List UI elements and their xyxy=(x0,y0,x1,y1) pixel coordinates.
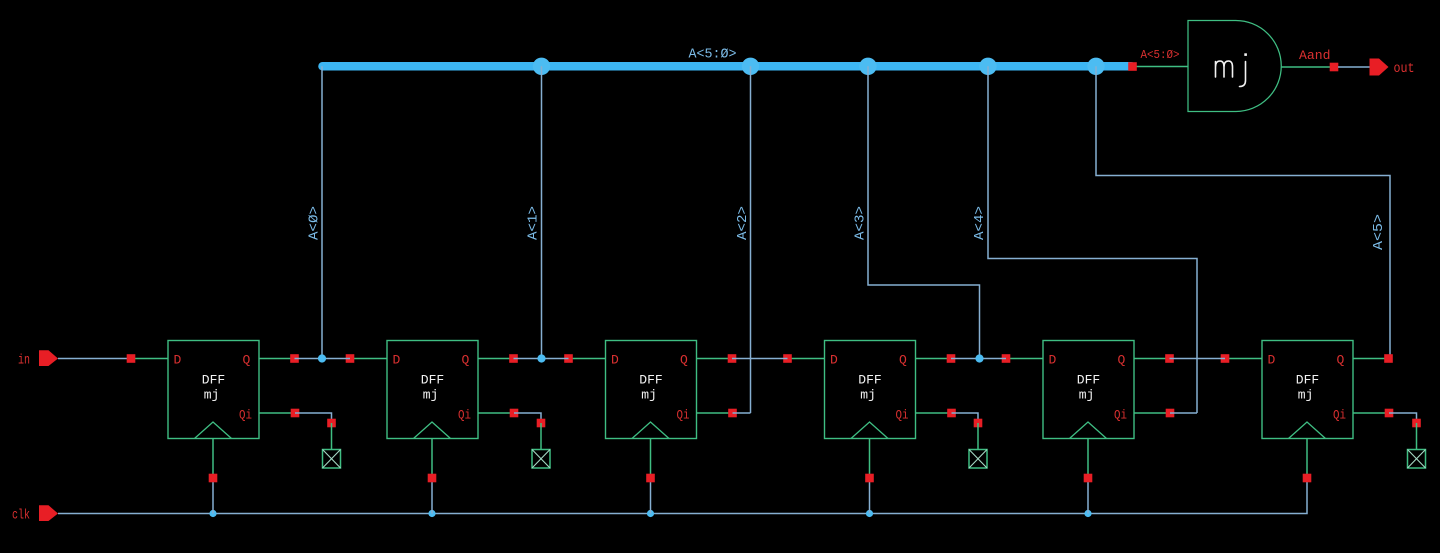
wire clk stub X4 xyxy=(869,478,871,514)
svg-text:Q: Q xyxy=(680,353,688,368)
DFF X6 xyxy=(1262,341,1353,439)
svg-text:DFF: DFF xyxy=(202,373,225,388)
wire net A<0> xyxy=(321,66,323,358)
wire Q0 to D1 xyxy=(295,358,351,360)
svg-text:A<1>: A<1> xyxy=(526,206,542,240)
DFF X1 xyxy=(168,341,259,439)
pin marker Q X3 xyxy=(728,354,737,363)
wire D stub X6 xyxy=(1225,358,1262,360)
svg-text:A<5>: A<5> xyxy=(1371,214,1387,250)
pin clk xyxy=(39,505,58,521)
svg-text:mj: mj xyxy=(641,388,657,403)
pin marker D X1 xyxy=(127,354,136,363)
pin marker clk X4 xyxy=(865,474,874,483)
svg-text:D: D xyxy=(830,353,838,368)
pin marker Q X6 xyxy=(1384,354,1393,363)
svg-text:A<Ø>: A<Ø> xyxy=(307,206,323,240)
bus junction A<3> tap xyxy=(859,58,876,75)
and-gate U1 xyxy=(1188,20,1281,111)
bus junction A<5> tap xyxy=(1087,58,1104,75)
wire clk green stub X2 xyxy=(431,439,433,479)
svg-text:in: in xyxy=(18,353,30,369)
svg-text:out: out xyxy=(1394,61,1415,77)
wire Aand to out pin xyxy=(1338,66,1370,68)
svg-text:Q: Q xyxy=(1337,353,1345,368)
bus junction A<2> tap xyxy=(742,58,759,75)
pin marker Qi X2 xyxy=(510,409,519,418)
junction Q0 net xyxy=(318,354,326,362)
pin marker Qi X3 xyxy=(728,409,737,418)
wire D stub X5 xyxy=(1006,358,1043,360)
wire clk green stub X3 xyxy=(650,439,652,479)
svg-text:mj: mj xyxy=(423,388,439,403)
wire Qi X5 to A<4> xyxy=(1170,412,1197,414)
wire Q stub X6 xyxy=(1353,358,1389,360)
wire Qi X3 to A<2> xyxy=(733,412,751,414)
wire clk stub X5 xyxy=(1087,478,1089,514)
pin marker D X2 xyxy=(346,354,355,363)
wire net A<3> xyxy=(868,66,980,358)
pin marker D X3 xyxy=(564,354,573,363)
pin marker D X6 xyxy=(1221,354,1230,363)
wire clk green stub X5 xyxy=(1087,439,1089,479)
svg-text:D: D xyxy=(1049,353,1057,368)
svg-text:A<3>: A<3> xyxy=(853,206,869,240)
bus junction A<4> tap xyxy=(979,58,996,75)
junction clk X2 xyxy=(428,510,435,517)
DFF X4 xyxy=(825,341,916,439)
svg-text:D: D xyxy=(393,353,401,368)
pin marker clk X5 xyxy=(1084,474,1093,483)
svg-text:mj: mj xyxy=(860,388,876,403)
DFF X5 xyxy=(1043,341,1134,439)
wire in net xyxy=(58,358,131,360)
pin out xyxy=(1370,59,1389,76)
wire Qi to noconn X2 xyxy=(514,413,541,423)
pin marker D X4 xyxy=(783,354,792,363)
wire Q3 to D4 xyxy=(951,358,1006,360)
wire D stub X3 xyxy=(569,358,606,360)
wire Qi stub X2 xyxy=(478,412,514,414)
bus junction A<1> tap xyxy=(533,58,550,75)
wire Q stub X5 xyxy=(1134,358,1170,360)
svg-text:DFF: DFF xyxy=(858,373,881,388)
pin marker noconn X1 xyxy=(327,419,336,428)
wire Q stub X1 xyxy=(259,358,295,360)
pin marker Q X1 xyxy=(290,354,299,363)
pin marker clk X3 xyxy=(646,474,655,483)
svg-text:D: D xyxy=(1268,353,1276,368)
wire clk trunk xyxy=(58,478,1307,514)
svg-text:Qi: Qi xyxy=(677,408,690,423)
svg-text:DFF: DFF xyxy=(1077,373,1100,388)
wire net A<1> xyxy=(541,66,543,358)
wire Q4 to D5 xyxy=(1170,358,1226,360)
svg-text:D: D xyxy=(611,353,619,368)
pin marker Q X2 xyxy=(509,354,518,363)
wire net A<5> xyxy=(1096,66,1390,358)
pin marker Qi X6 xyxy=(1385,409,1394,418)
wire Qi to noconn X6 xyxy=(1389,413,1417,423)
svg-text:Q: Q xyxy=(243,353,251,368)
wire Q stub X4 xyxy=(916,358,952,360)
svg-text:A<5:Ø>: A<5:Ø> xyxy=(1141,48,1180,62)
svg-text:Q: Q xyxy=(462,353,470,368)
svg-text:Qi: Qi xyxy=(1114,408,1127,423)
wire clk stub X2 xyxy=(431,478,433,514)
pin marker noconn X4 xyxy=(974,419,983,428)
wire net A<2> xyxy=(750,66,752,413)
junction Q1 net xyxy=(537,354,545,362)
pin marker clk X1 xyxy=(209,474,218,483)
pin marker Q X4 xyxy=(947,354,956,363)
wire noconn stub X6 xyxy=(1416,423,1418,450)
svg-text:Qi: Qi xyxy=(1333,408,1346,423)
pin marker Qi X1 xyxy=(291,409,300,418)
svg-text:A<2>: A<2> xyxy=(735,206,751,240)
pin marker Qi X5 xyxy=(1166,409,1175,418)
wire clk stub X1 xyxy=(212,478,214,514)
no-connect symbol X6 xyxy=(1408,450,1426,469)
svg-text:Qi: Qi xyxy=(458,408,471,423)
wire noconn stub X2 xyxy=(540,423,542,450)
wire gate output Aand xyxy=(1281,66,1334,68)
DFF X3 xyxy=(606,341,697,439)
junction clk X4 xyxy=(866,510,873,517)
bus A<5:0> xyxy=(323,62,1132,71)
svg-text:Qi: Qi xyxy=(896,408,909,423)
svg-text:Qi: Qi xyxy=(239,408,252,423)
svg-text:Aand: Aand xyxy=(1299,48,1331,63)
wire noconn stub X1 xyxy=(331,423,333,450)
wire D stub X4 xyxy=(788,358,825,360)
pin marker D X5 xyxy=(1002,354,1011,363)
DFF X2 xyxy=(387,341,478,439)
no-connect symbol X2 xyxy=(532,450,550,469)
svg-text:D: D xyxy=(174,353,182,368)
wire noconn stub X4 xyxy=(977,423,979,450)
pin marker gate input xyxy=(1128,62,1137,71)
wire D stub X2 xyxy=(350,358,387,360)
pin marker clk X6 xyxy=(1303,474,1312,483)
svg-text:DFF: DFF xyxy=(1296,373,1319,388)
pin marker noconn X6 xyxy=(1412,419,1421,428)
wire clk stub X3 xyxy=(650,478,652,514)
junction Q3 net xyxy=(975,354,983,362)
svg-text:Q: Q xyxy=(1118,353,1126,368)
wire Q stub X2 xyxy=(478,358,514,360)
pin marker clk X2 xyxy=(428,474,437,483)
wire Qi stub X5 xyxy=(1134,412,1170,414)
pin marker gate output xyxy=(1330,63,1339,72)
pin in xyxy=(39,350,58,366)
wire Qi stub X6 xyxy=(1353,412,1389,414)
svg-text:DFF: DFF xyxy=(639,373,662,388)
wire clk green stub X1 xyxy=(212,439,214,479)
junction clk X5 xyxy=(1084,510,1091,517)
no-connect symbol X4 xyxy=(969,450,987,469)
wire Q1 to D2 xyxy=(514,358,569,360)
wire Qi to noconn X1 xyxy=(295,413,332,423)
wire Qi stub X3 xyxy=(697,412,733,414)
svg-text:DFF: DFF xyxy=(421,373,444,388)
svg-text:A<5:Ø>: A<5:Ø> xyxy=(689,48,737,63)
pin marker Q X5 xyxy=(1165,354,1174,363)
svg-text:Q: Q xyxy=(899,353,907,368)
no-connect symbol X1 xyxy=(323,450,341,469)
junction clk X1 xyxy=(209,510,216,517)
pin marker noconn X2 xyxy=(537,419,546,428)
junction clk X3 xyxy=(647,510,654,517)
svg-text:mj: mj xyxy=(204,388,220,403)
wire Qi stub X1 xyxy=(259,412,295,414)
wire Q stub X3 xyxy=(697,358,733,360)
wire Q2 to D3 xyxy=(732,358,788,360)
wire clk green stub X4 xyxy=(869,439,871,479)
wire Qi stub X4 xyxy=(916,412,952,414)
wire D stub X1 xyxy=(131,358,168,360)
wire clk green stub X6 xyxy=(1306,439,1308,479)
svg-text:clk: clk xyxy=(12,508,30,524)
wire bus to gate input xyxy=(1136,66,1188,68)
svg-text:mj: mj xyxy=(1079,388,1095,403)
wire net A<4> xyxy=(988,66,1197,413)
wire Qi to noconn X4 xyxy=(952,413,979,423)
pin marker Qi X4 xyxy=(947,409,956,418)
svg-text:A<4>: A<4> xyxy=(972,206,988,240)
svg-text:mj: mj xyxy=(1298,388,1314,403)
